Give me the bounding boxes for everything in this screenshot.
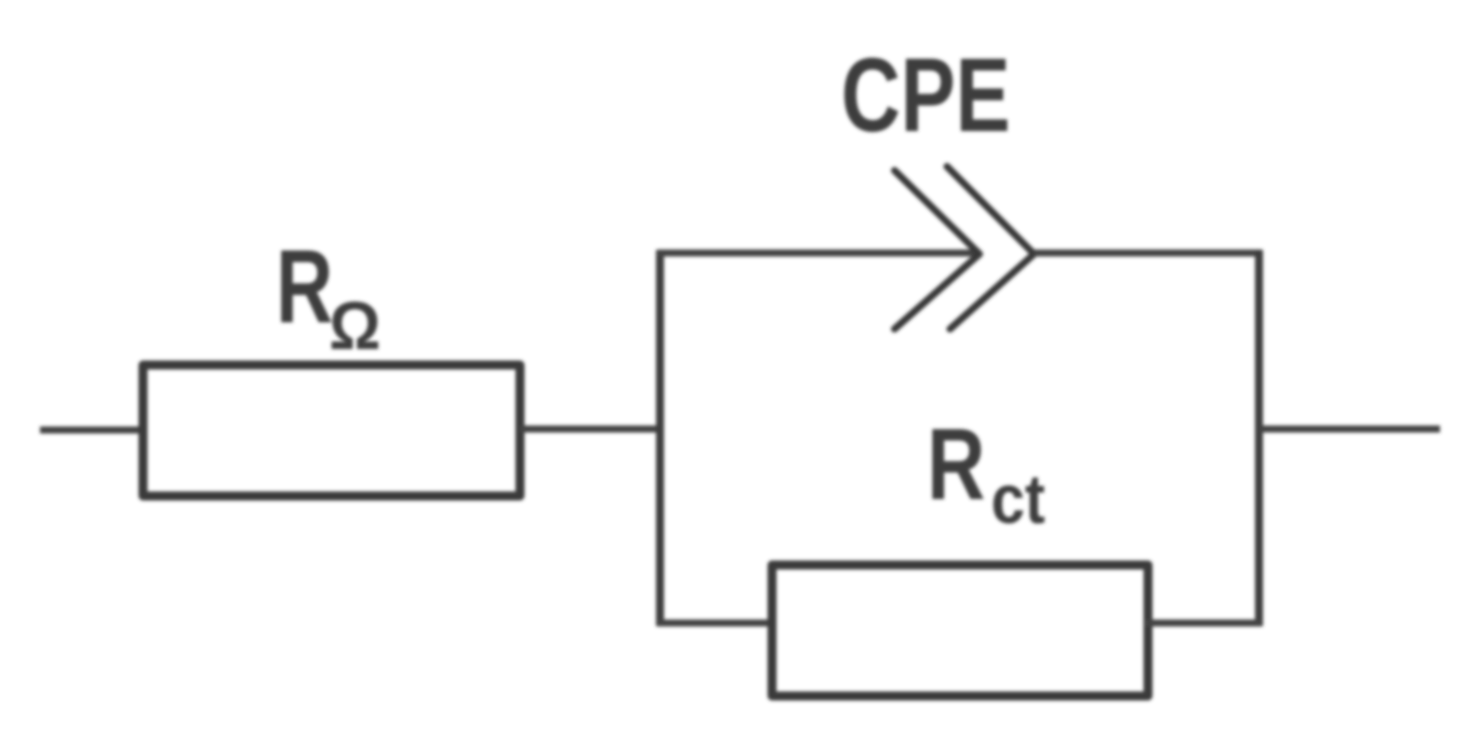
- wire left rail: [656, 250, 664, 626]
- wire top branch left: [657, 250, 978, 257]
- label Rct: [927, 408, 1045, 537]
- wire top branch right: [1034, 250, 1262, 257]
- wire RΩ to parallel node: [520, 426, 663, 433]
- wire bottom branch right: [1145, 620, 1262, 627]
- wire input lead: [40, 427, 146, 434]
- label RΩ: [276, 227, 381, 364]
- wire right rail: [1255, 250, 1263, 626]
- resistor Rct body: [772, 565, 1148, 696]
- resistor RΩ body: [143, 365, 520, 496]
- svg-text:ct: ct: [991, 460, 1045, 538]
- wire output lead: [1259, 426, 1440, 433]
- wire bottom branch left: [657, 620, 775, 627]
- CPE symbol chevrons: [895, 167, 1035, 330]
- svg-text:CPE: CPE: [841, 38, 1010, 155]
- svg-text:R: R: [276, 227, 333, 344]
- svg-text:R: R: [927, 408, 985, 521]
- svg-text:Ω: Ω: [329, 289, 381, 365]
